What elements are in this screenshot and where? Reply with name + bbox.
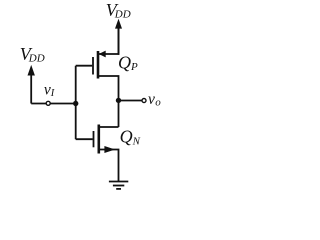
transistor QN channel bar bbox=[98, 125, 101, 154]
wire: QP drain to output bus bbox=[98, 76, 119, 127]
svg-text:VDD: VDD bbox=[106, 0, 131, 21]
wire: output tap to vo terminal bbox=[119, 100, 143, 102]
transistor QP gate bar bbox=[92, 57, 94, 75]
wire: PMOS source lead to VDD bbox=[98, 26, 119, 54]
VDD supply arrow (top) bbox=[115, 19, 122, 55]
VDD supply arrow (left) bbox=[28, 65, 35, 104]
output terminal (open circle) bbox=[142, 99, 146, 103]
svg-text:vI: vI bbox=[44, 82, 55, 100]
wire: QN drain lead bbox=[99, 126, 119, 128]
wire: QP gate lead bbox=[76, 65, 93, 67]
input terminal (open circle) bbox=[46, 101, 50, 105]
transistor QP channel bar bbox=[97, 51, 100, 79]
svg-text:QP: QP bbox=[118, 52, 138, 73]
wire: left rail to input node bbox=[31, 103, 75, 105]
junction: input to gate bus bbox=[73, 101, 78, 106]
transistor QN gate bar bbox=[93, 131, 95, 147]
PMOS source arrow (pointing into channel) bbox=[99, 51, 106, 58]
svg-text:VDD: VDD bbox=[20, 44, 45, 65]
wire: QN gate lead bbox=[76, 138, 93, 140]
junction: output tap bbox=[116, 98, 121, 103]
QN source arrow (pointing out of channel) bbox=[104, 146, 115, 153]
svg-text:QN: QN bbox=[120, 127, 141, 148]
wire: QN source lead to ground bbox=[99, 150, 119, 182]
svg-text:vo: vo bbox=[148, 91, 161, 109]
ground bbox=[109, 182, 128, 189]
wire: gate bus (QP gate to QN gate) bbox=[75, 66, 77, 140]
